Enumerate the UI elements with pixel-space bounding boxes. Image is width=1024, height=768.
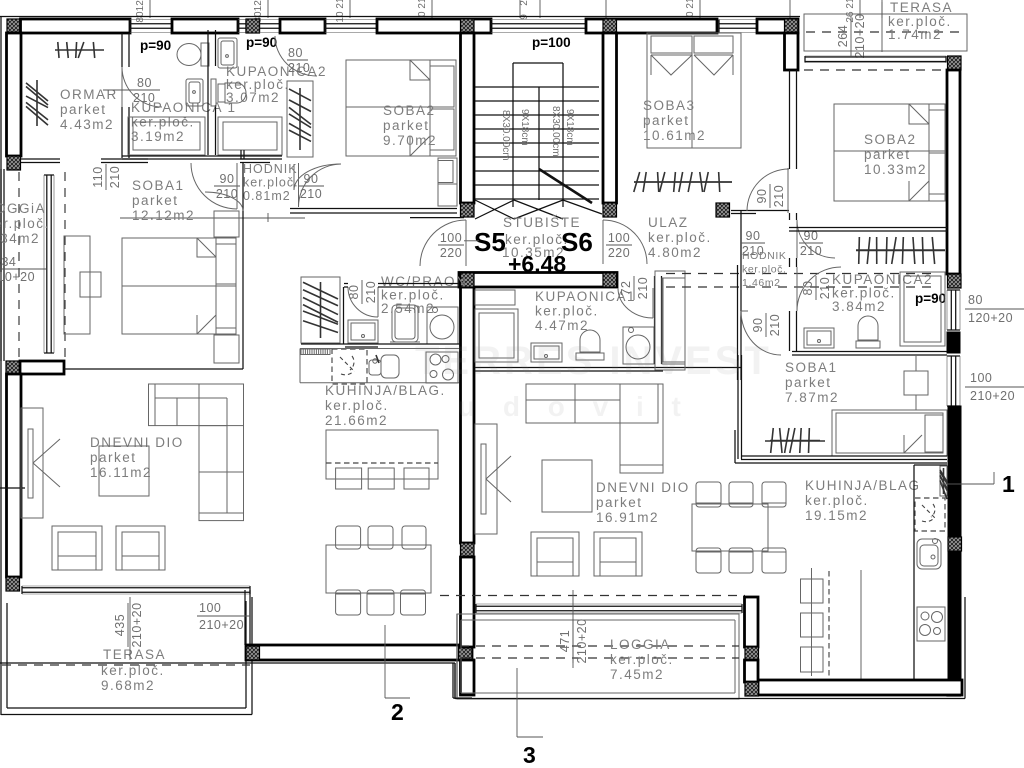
svg-text:210+20: 210+20 bbox=[130, 602, 144, 647]
fridge dashed bbox=[332, 349, 367, 384]
svg-text:210: 210 bbox=[133, 91, 155, 105]
terrace top-right outline + label TERASA 1.74m2 bbox=[804, 14, 967, 51]
door arc kupaonica1-mid bbox=[618, 288, 653, 318]
svg-text:parket: parket bbox=[596, 495, 643, 510]
svg-text:ker.ploč.: ker.ploč. bbox=[805, 493, 869, 508]
corridor dashed lines bbox=[666, 273, 933, 275]
dim 80/210 wc rotated bbox=[347, 280, 378, 304]
svg-text:ker.ploč.: ker.ploč. bbox=[610, 652, 674, 667]
svg-text:8X30.00cm: 8X30.00cm bbox=[550, 106, 561, 157]
svg-text:21: 21 bbox=[685, 0, 696, 9]
soba2-left bottom wall bbox=[290, 208, 457, 210]
svg-text:100: 100 bbox=[440, 231, 462, 245]
terrace bottom-left outline bbox=[0, 597, 2, 715]
leader line 2 bbox=[384, 625, 386, 698]
wardrobe hatch ORMAR top bbox=[55, 49, 104, 51]
sink kupaonica2-left bbox=[218, 38, 237, 68]
wardrobe hatch ORMAR left bbox=[36, 80, 38, 126]
svg-text:210: 210 bbox=[300, 187, 322, 201]
wall stub right of top wall F bbox=[785, 33, 799, 70]
dining table right bbox=[692, 504, 768, 551]
nightstand bottom bbox=[214, 335, 239, 363]
stair treads bbox=[475, 86, 599, 88]
right wall seg4 bbox=[948, 551, 961, 682]
middle-bottom wall piece bbox=[461, 660, 475, 695]
dim 72/210 rotated bbox=[619, 276, 650, 300]
wall hatch left mid bbox=[6, 361, 20, 375]
svg-text:ker.ploč.: ker.ploč. bbox=[742, 264, 787, 276]
window W4 top bbox=[325, 23, 377, 25]
svg-text:7.45m2: 7.45m2 bbox=[610, 667, 664, 682]
svg-text:p=90: p=90 bbox=[246, 35, 277, 50]
svg-text:9.70m2: 9.70m2 bbox=[383, 133, 437, 148]
top wall segment C bbox=[280, 19, 325, 33]
svg-text:80: 80 bbox=[968, 293, 983, 307]
toilet kupaonica2-left bbox=[218, 84, 225, 102]
dining chairs right top bbox=[696, 482, 721, 507]
door arc soba2-right bbox=[747, 169, 789, 211]
stove right bbox=[917, 607, 945, 641]
svg-text:10.33m2: 10.33m2 bbox=[864, 162, 927, 177]
svg-text:4.47m2: 4.47m2 bbox=[535, 318, 589, 333]
window W2 top bbox=[238, 23, 246, 25]
svg-text:KUHINJA/BLAG.: KUHINJA/BLAG. bbox=[325, 383, 446, 398]
svg-text:264: 264 bbox=[836, 25, 850, 47]
stair landing arrows bbox=[475, 200, 514, 219]
stair up-run diagonal bbox=[539, 169, 592, 203]
soba1-right outer line bbox=[735, 462, 947, 464]
top wall segment F bbox=[757, 19, 798, 33]
kup2-right bottom wall bbox=[792, 351, 947, 353]
svg-text:9X18cm: 9X18cm bbox=[564, 109, 575, 146]
svg-text:435: 435 bbox=[113, 614, 127, 636]
svg-text:parket: parket bbox=[643, 113, 690, 128]
soba1-right left wall bbox=[737, 355, 739, 459]
svg-text:80: 80 bbox=[801, 281, 815, 296]
bottom wall step bbox=[452, 663, 454, 698]
kup1-kup2 wall bbox=[207, 30, 209, 66]
svg-text:220: 220 bbox=[608, 246, 630, 260]
wall junction hatch terrace bbox=[948, 56, 962, 70]
loggia-left outer lines bbox=[0, 169, 2, 361]
svg-text:TERASA: TERASA bbox=[103, 647, 166, 662]
washing machine kupaonica1-mid bbox=[623, 327, 654, 364]
terrace window bottom bbox=[22, 587, 250, 589]
island stools right bbox=[801, 579, 824, 603]
wardrobe SOBA3 bbox=[634, 181, 732, 183]
kitchen-left comb hatch bbox=[301, 349, 330, 355]
hodnik top wall bbox=[240, 158, 270, 160]
svg-text:SOBA1: SOBA1 bbox=[132, 178, 185, 193]
door arc S6 entrance bbox=[603, 220, 647, 264]
toilet kupaonica-left bbox=[201, 43, 209, 66]
svg-text:90: 90 bbox=[755, 189, 769, 204]
svg-text:21: 21 bbox=[845, 0, 856, 9]
svg-text:4.43m2: 4.43m2 bbox=[60, 117, 114, 132]
desk soba1-right bbox=[904, 371, 928, 395]
svg-text:471: 471 bbox=[558, 630, 572, 652]
svg-text:parket: parket bbox=[383, 118, 430, 133]
bed SOBA2-right bbox=[834, 104, 945, 201]
svg-text:80: 80 bbox=[137, 76, 152, 90]
right wall seg2 bbox=[947, 332, 960, 353]
svg-text:21.66m2: 21.66m2 bbox=[325, 413, 388, 428]
svg-text:210+20: 210+20 bbox=[575, 618, 589, 663]
svg-text:4.80m2: 4.80m2 bbox=[648, 245, 702, 260]
top outer wall thin face line bbox=[0, 16, 800, 18]
wall corner hatch top-left bbox=[7, 19, 21, 33]
armchair right 2 bbox=[594, 532, 642, 576]
svg-text:9X18cm: 9X18cm bbox=[519, 109, 530, 146]
svg-text:ULAZ: ULAZ bbox=[648, 215, 689, 230]
dining table left bbox=[326, 545, 431, 593]
bottom wall band bbox=[246, 645, 472, 660]
svg-text:210+20: 210+20 bbox=[970, 389, 1015, 403]
svg-text:90: 90 bbox=[220, 172, 235, 186]
wall hatch right-2 bbox=[948, 537, 962, 551]
bed SOBA2-left bbox=[346, 60, 456, 156]
loggia-right dashed bbox=[440, 595, 745, 597]
top wall segment B bbox=[172, 19, 238, 33]
dim 90/210 soba1door bbox=[751, 313, 782, 337]
loggia-left window bbox=[46, 175, 48, 353]
svg-text:100: 100 bbox=[199, 601, 221, 615]
wc top wall bbox=[344, 283, 348, 285]
svg-text:80: 80 bbox=[288, 46, 303, 60]
svg-text:210: 210 bbox=[818, 277, 832, 299]
door arc wc bbox=[348, 287, 378, 317]
stair right wall upper bbox=[603, 33, 617, 203]
leader line 3 bbox=[516, 668, 518, 737]
wall junction hatch bbox=[246, 19, 260, 33]
dining chairs bottom bbox=[336, 590, 361, 615]
wall junction hatch stair-left bbox=[461, 19, 475, 33]
soba2-left shaft bbox=[438, 158, 457, 206]
svg-text:u d o v i t: u d o v i t bbox=[458, 391, 691, 422]
svg-text:120: 120 bbox=[253, 0, 264, 11]
svg-text:ker.ploč.: ker.ploč. bbox=[325, 398, 389, 413]
loggia-right right wall b1 bbox=[745, 597, 759, 647]
door arc kup2 bbox=[275, 36, 317, 76]
left wall upper bbox=[7, 33, 22, 156]
dim 90/210 ulaz rot bbox=[755, 184, 786, 208]
right wall upper bbox=[947, 70, 960, 274]
dining chairs top bbox=[336, 526, 361, 549]
door arc ormar bbox=[122, 67, 162, 107]
dim 80/210 kup2door rotated bbox=[801, 276, 832, 300]
middle wall mid bbox=[461, 287, 475, 543]
svg-text:110: 110 bbox=[91, 166, 105, 187]
svg-text:3.84m2: 3.84m2 bbox=[832, 299, 886, 314]
shower niche bbox=[900, 272, 945, 346]
bathtub kupaonica-left bbox=[128, 117, 205, 155]
loggia-left dashed bbox=[18, 172, 20, 360]
toilet kupaonica1-mid bbox=[576, 353, 604, 360]
wall stub left mid bbox=[20, 361, 64, 374]
svg-text:90: 90 bbox=[746, 229, 761, 243]
window right 80 bbox=[950, 290, 952, 330]
svg-text:parket: parket bbox=[90, 450, 137, 465]
svg-text:10.61m2: 10.61m2 bbox=[643, 128, 706, 143]
svg-text:16.91m2: 16.91m2 bbox=[596, 510, 659, 525]
wc cabinet bbox=[348, 320, 378, 343]
window W5 top bbox=[491, 23, 586, 25]
door arc soba2-left bbox=[294, 164, 341, 190]
svg-text:DNEVNI DIO: DNEVNI DIO bbox=[90, 435, 184, 450]
sink right bbox=[917, 539, 941, 569]
corridor right wall bbox=[789, 213, 791, 220]
window W1 top bbox=[130, 23, 172, 25]
svg-text:1.74m2: 1.74m2 bbox=[888, 27, 942, 42]
door arc closet-right bbox=[797, 220, 835, 258]
svg-text:19.15m2: 19.15m2 bbox=[805, 508, 868, 523]
kitchen island left bbox=[326, 430, 438, 479]
leader line 1 bbox=[940, 483, 994, 485]
svg-text:parket: parket bbox=[132, 193, 179, 208]
svg-text:parket: parket bbox=[785, 375, 832, 390]
svg-text:ker.ploč.: ker.ploč. bbox=[243, 176, 299, 190]
dim 435/210+20 rotated bbox=[113, 602, 144, 647]
top wall segment D bbox=[377, 19, 491, 33]
kup2 bottom wall bbox=[122, 155, 282, 157]
svg-text:534: 534 bbox=[0, 255, 16, 269]
sink kupaonica-left bbox=[186, 79, 203, 106]
wall hatch bottom-left-apt right bbox=[459, 646, 473, 660]
door arc corridor-soba1 bbox=[741, 311, 781, 355]
svg-text:210: 210 bbox=[108, 166, 122, 188]
kupaonica1-mid right wall bbox=[654, 276, 656, 364]
svg-text:SOBA1: SOBA1 bbox=[785, 360, 838, 375]
closet WC-left bbox=[301, 277, 340, 343]
bed SOBA3 bbox=[647, 33, 741, 148]
wall junction hatch bbox=[785, 19, 799, 33]
svg-text:7.87m2: 7.87m2 bbox=[785, 390, 839, 405]
svg-text:0.81m2: 0.81m2 bbox=[243, 189, 291, 203]
bed soba1-right bbox=[832, 410, 947, 456]
hodnik dim line bbox=[120, 217, 305, 219]
soba2-right left wall bbox=[789, 70, 791, 169]
wall hatch stair-bottom-right bbox=[603, 273, 617, 287]
wall junction hatch stair-right bbox=[603, 19, 617, 33]
shaft bbox=[655, 271, 685, 370]
laundry tub bbox=[392, 305, 418, 342]
svg-text:1.46m2: 1.46m2 bbox=[742, 277, 781, 289]
left wall lower bbox=[7, 374, 22, 577]
window W6 top bbox=[719, 23, 757, 25]
top wall segment A bbox=[21, 19, 131, 33]
wall hatch S5-door-top bbox=[461, 203, 475, 217]
window W3 top bbox=[260, 23, 281, 25]
dim 110/210 rotated bbox=[91, 164, 122, 190]
svg-text:210: 210 bbox=[636, 277, 650, 299]
svg-text:SOBA2: SOBA2 bbox=[383, 103, 436, 118]
svg-text:210+20: 210+20 bbox=[0, 270, 35, 284]
svg-text:21: 21 bbox=[417, 0, 428, 9]
terrace window connector bbox=[244, 590, 246, 645]
bed SOBA1-left bbox=[122, 238, 236, 334]
svg-text:100: 100 bbox=[970, 371, 992, 385]
dim line terasa bbox=[129, 597, 131, 660]
top wall segment E bbox=[586, 19, 717, 33]
soba1-left bottom line bbox=[64, 368, 243, 370]
nightstand top bbox=[214, 211, 239, 237]
svg-text:8X30.00cm: 8X30.00cm bbox=[500, 110, 511, 161]
washing machine left bbox=[427, 307, 458, 344]
wardrobe hatch column bbox=[287, 81, 313, 157]
window right 100 bbox=[950, 356, 952, 406]
svg-text:2: 2 bbox=[391, 699, 404, 725]
door arc soba1-left bbox=[205, 192, 243, 211]
svg-text:9.68m2: 9.68m2 bbox=[101, 678, 155, 693]
svg-text:KUHINJA/BLAG: KUHINJA/BLAG bbox=[805, 478, 921, 493]
door arc S5 entrance bbox=[420, 220, 466, 266]
door arc hodnik-right bbox=[299, 164, 342, 207]
svg-text:210: 210 bbox=[772, 185, 786, 207]
svg-text:90: 90 bbox=[304, 172, 319, 186]
svg-text:72: 72 bbox=[619, 281, 633, 296]
svg-text:210+20: 210+20 bbox=[199, 618, 244, 632]
wardrobe soba1-right bbox=[770, 440, 820, 442]
bathtub kupaonica2-left bbox=[218, 117, 282, 155]
svg-text:ker.ploč.: ker.ploč. bbox=[535, 304, 599, 319]
middle wall lower bbox=[461, 557, 475, 647]
svg-text:p=100: p=100 bbox=[532, 35, 571, 50]
ulaz bottom hatch bbox=[716, 203, 730, 217]
dining chairs right bottom bbox=[696, 548, 721, 573]
toilet kup2-right bbox=[856, 341, 880, 348]
coffee table right bbox=[542, 460, 592, 512]
terrace window bbox=[805, 56, 946, 58]
svg-text:120: 120 bbox=[135, 0, 146, 11]
coffee table left bbox=[99, 446, 149, 496]
stair bottom wall bbox=[459, 273, 617, 288]
svg-text:ker.ploč.: ker.ploč. bbox=[101, 663, 165, 678]
svg-text:HODNIK: HODNIK bbox=[243, 162, 298, 176]
sofa left bbox=[149, 384, 244, 426]
sink kupaonica1-mid bbox=[531, 343, 562, 362]
loggia-right right wall b2 bbox=[745, 660, 759, 682]
loggia-right hatch 2 bbox=[745, 682, 759, 696]
wall hatch right-corner bbox=[947, 682, 961, 696]
loggia-right left edge bbox=[454, 663, 456, 699]
loggia-right hatch 1 bbox=[745, 647, 759, 661]
svg-text:S5: S5 bbox=[474, 227, 506, 257]
svg-text:90: 90 bbox=[751, 318, 765, 333]
svg-text:parket: parket bbox=[60, 102, 107, 117]
svg-text:3: 3 bbox=[523, 742, 536, 768]
svg-text:+6.48: +6.48 bbox=[508, 251, 566, 277]
corridor wall bbox=[737, 265, 739, 380]
soba2-right bottom wall bbox=[789, 227, 947, 229]
island stools bbox=[336, 468, 362, 489]
fridge right dashed bbox=[915, 498, 945, 531]
svg-text:100: 100 bbox=[608, 231, 630, 245]
svg-text:2: 2 bbox=[519, 0, 530, 6]
svg-text:210: 210 bbox=[364, 281, 378, 303]
wardrobe hatch kup2-right bbox=[856, 250, 945, 252]
left small line bbox=[0, 487, 25, 489]
door arc hodnik-left bbox=[191, 163, 237, 209]
left outer face line bbox=[0, 17, 2, 598]
dresser soba1-left bbox=[64, 236, 90, 334]
wall hatch right-1 bbox=[948, 274, 962, 288]
bathtub kupaonica1-mid bbox=[475, 290, 515, 305]
door arc kup2-right bbox=[797, 267, 841, 311]
terrace dashed line bbox=[804, 69, 947, 71]
svg-text:ker.ploč.: ker.ploč. bbox=[648, 230, 712, 245]
wall hatch left bottom bbox=[6, 577, 20, 591]
wall hatch S6-door-top bbox=[603, 203, 617, 217]
loggia dim line bbox=[572, 590, 574, 668]
stove left bbox=[426, 352, 458, 383]
wall ormar bottom bbox=[101, 158, 148, 160]
svg-text:p=90: p=90 bbox=[140, 38, 171, 53]
kitchen counter right bbox=[913, 465, 915, 680]
ormar-kupaonica wall bbox=[121, 33, 123, 67]
armchair left 1 bbox=[52, 526, 102, 570]
sink kup2-right bbox=[804, 328, 834, 348]
svg-text:SOBA2: SOBA2 bbox=[864, 132, 917, 147]
bottom outer line right bbox=[455, 698, 965, 700]
svg-text:80: 80 bbox=[347, 285, 361, 300]
svg-text:TERASA: TERASA bbox=[890, 0, 953, 15]
wall hatch stair-bottom-left bbox=[461, 273, 475, 287]
svg-text:parket: parket bbox=[864, 147, 911, 162]
wall hatch bottom-left-apt left bbox=[246, 646, 260, 660]
svg-text:LOGGIA: LOGGIA bbox=[610, 637, 671, 652]
watermark bbox=[415, 339, 772, 422]
dim 471/210+20 rotated bbox=[558, 618, 589, 663]
svg-text:1: 1 bbox=[1002, 471, 1015, 497]
kupaonica1-mid bottom wall bbox=[475, 367, 741, 369]
tv cabinet right bbox=[475, 424, 497, 534]
ulaz bottom wall bbox=[731, 210, 789, 212]
svg-text:ORMAR: ORMAR bbox=[60, 87, 118, 102]
svg-text:DNEVNI DIO: DNEVNI DIO bbox=[596, 480, 690, 495]
armchair left 2 bbox=[116, 526, 165, 570]
svg-text:SOBA3: SOBA3 bbox=[643, 98, 696, 113]
island right bbox=[828, 571, 830, 676]
wall hatch terrace-right bbox=[246, 646, 260, 660]
stair labels rotated bbox=[500, 106, 575, 161]
right wall seg3 bbox=[948, 406, 961, 537]
bottom wall face line bbox=[0, 662, 455, 664]
svg-text:ker.ploč.: ker.ploč. bbox=[0, 216, 50, 231]
svg-text:21: 21 bbox=[335, 0, 346, 9]
middle wall upper bbox=[461, 33, 475, 203]
svg-text:1.34m2: 1.34m2 bbox=[0, 231, 40, 246]
svg-text:HODNIK: HODNIK bbox=[742, 250, 786, 262]
armchair right 1 bbox=[531, 532, 579, 576]
bottom wall right apt bbox=[758, 680, 962, 695]
svg-text:LOGGiA: LOGGiA bbox=[0, 201, 46, 216]
wall hatch middle bbox=[461, 543, 475, 557]
soba1-left right wall line bbox=[242, 162, 244, 369]
soba1-right bottom wall bbox=[741, 455, 947, 457]
dimension ticks top margin bbox=[149, 0, 151, 18]
kitchen counter lines bbox=[300, 348, 459, 350]
svg-text:TERRES INVEST: TERRES INVEST bbox=[415, 339, 772, 383]
svg-text:3.19m2: 3.19m2 bbox=[131, 129, 185, 144]
svg-text:120+20: 120+20 bbox=[968, 311, 1013, 325]
wc left wall bbox=[343, 287, 345, 344]
svg-text:210: 210 bbox=[800, 244, 822, 258]
kitchen sink left bbox=[369, 360, 381, 375]
kitchen hatch strip bbox=[940, 466, 947, 496]
loggia-right outline bbox=[457, 614, 739, 699]
svg-text:12.12m2: 12.12m2 bbox=[132, 208, 195, 223]
wc wall bottom bbox=[345, 343, 460, 345]
